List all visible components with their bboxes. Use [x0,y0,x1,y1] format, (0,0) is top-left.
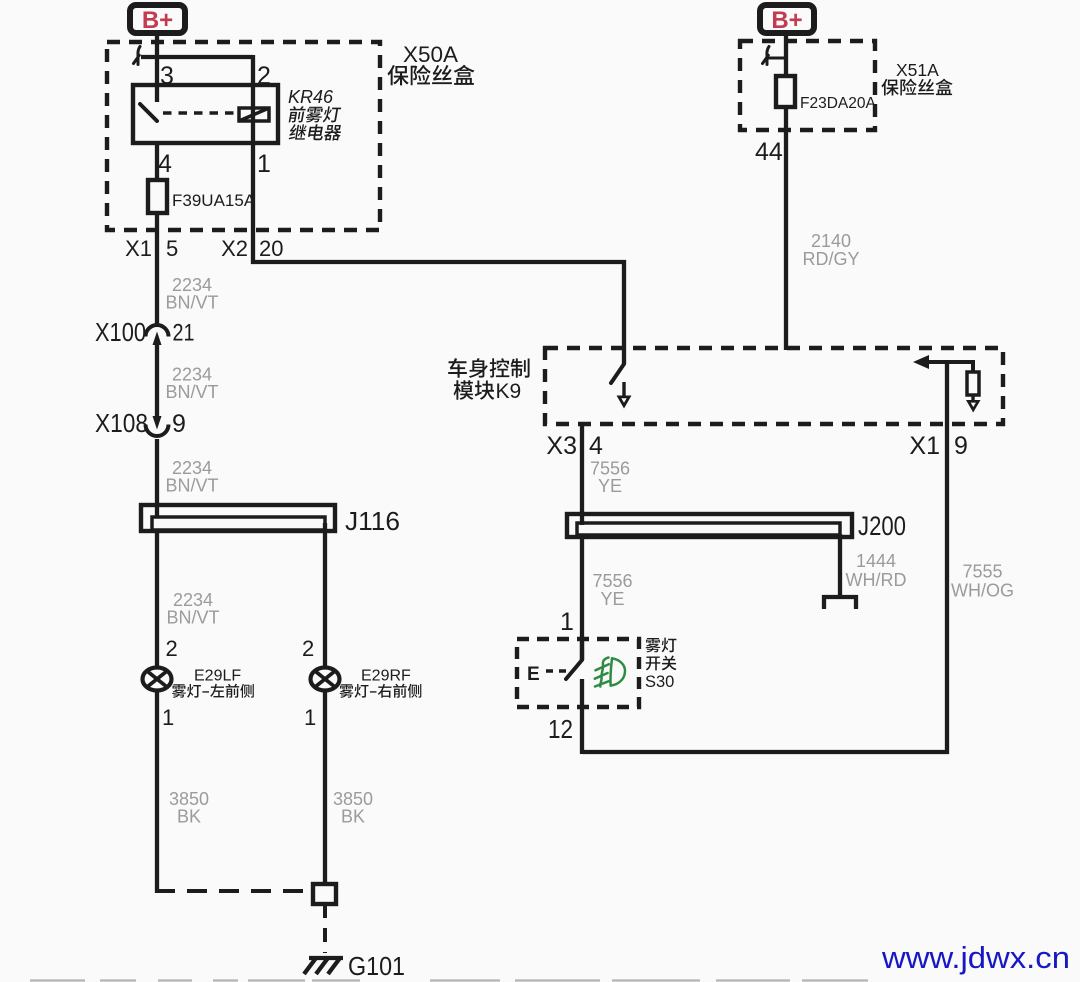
svg-text:4: 4 [158,150,172,178]
svg-text:12: 12 [548,714,573,744]
svg-text:X100: X100 [95,317,146,347]
switch S30 blade [580,642,584,660]
fog lamp icon (green) [595,658,625,687]
svg-text:1444: 1444 [856,551,896,571]
wire B+ to relay pin 3 [155,33,159,102]
svg-text:21: 21 [173,320,195,347]
splice J200 [567,514,852,537]
fuse box X50A outline [107,42,380,230]
BCM resistor arrow [971,395,974,400]
svg-text:BK: BK [177,807,201,827]
wire X100 to X108 [155,343,159,417]
svg-text:X2: X2 [221,236,248,261]
svg-text:X51A: X51A [896,60,939,80]
wire X108 to splice J116 [155,439,159,517]
wire J116 to lamp E29LF [155,531,159,667]
svg-text:www.jdwx.cn: www.jdwx.cn [881,940,1070,975]
svg-text:X1: X1 [909,432,940,460]
lamp E29RF 雾灯-右前侧 [311,668,340,691]
svg-text:20: 20 [259,236,283,261]
svg-text:2: 2 [302,636,314,661]
BCM internal switch [611,364,624,383]
svg-text:J116: J116 [345,506,400,536]
wire S30 pin 12 down [580,679,584,754]
wire X3-4 to splice J200 [580,424,584,525]
svg-text:X108: X108 [95,408,148,438]
fuse box X51A outline [740,41,875,130]
wire relay pin 4 to fuse F39 [155,143,159,182]
wire pin 2 down to X2-20 [251,55,255,264]
label 车身控制模块K9 [448,358,529,378]
svg-text:7556: 7556 [592,571,632,591]
power symbol B+ (right) [760,5,814,33]
svg-text:9: 9 [172,410,186,438]
svg-text:B+: B+ [771,7,802,34]
svg-text:S30: S30 [645,673,674,691]
svg-text:E29LF: E29LF [194,668,241,685]
svg-text:YE: YE [598,476,622,496]
svg-text:F23DA20A: F23DA20A [800,95,876,112]
splice J116 [141,505,335,531]
svg-text:J200: J200 [858,511,906,541]
label 雾灯开关 S30 [646,638,677,653]
wire fuse F23 to BCM [784,107,788,350]
fuse F23DA20A [776,76,795,107]
svg-text:X3: X3 [546,432,577,460]
svg-text:2140: 2140 [811,231,851,251]
svg-text:KR46: KR46 [288,87,334,107]
wire X1-9 to switch return rail [582,361,947,752]
wire B+ to fuse F23 [784,33,788,78]
BCM output arrow left [622,382,625,396]
svg-text:BN/VT: BN/VT [165,293,218,313]
svg-text:YE: YE [600,589,624,609]
svg-text:X50A: X50A [403,42,458,67]
relay actuation dashed link [163,111,239,115]
svg-text:WH/RD: WH/RD [846,570,907,590]
wire J116 to lamp E29RF [323,523,327,667]
switch S30 outline [517,639,639,707]
svg-text:X1: X1 [125,236,152,261]
svg-text:BN/VT: BN/VT [166,608,219,628]
wire J200 to internal ground [838,534,842,597]
dashed wire to G101 [323,904,327,953]
svg-text:1: 1 [257,150,271,178]
svg-text:E29RF: E29RF [361,668,411,685]
wire lamp E29RF to ground box [323,691,327,887]
connector clip (X51A) [763,47,787,65]
module BCM K9 outline [545,348,1003,424]
svg-text:4: 4 [589,432,603,460]
BCM pull resistor [967,372,979,395]
svg-text:BK: BK [341,807,365,827]
ground eyelet box [313,884,336,904]
svg-text:F39UA15A: F39UA15A [172,191,256,210]
relay coil [239,108,269,121]
power symbol B+ (left) [130,5,185,33]
dashed wire to ground box [155,889,313,893]
svg-text:2: 2 [166,636,178,661]
svg-text:K9: K9 [496,380,522,403]
ground return symbol [824,597,856,609]
relay KR46 box [133,85,278,143]
svg-text:RD/GY: RD/GY [802,249,859,269]
svg-text:G101: G101 [348,951,405,981]
svg-text:B+: B+ [142,7,173,34]
ground G101 [304,958,343,974]
connector clip (X50A) [134,47,141,65]
svg-text:44: 44 [755,138,783,166]
wire fuse F39 to X100 [155,213,159,325]
wire X2-20 to BCM switch [251,262,624,364]
svg-text:7555: 7555 [962,562,1002,582]
svg-text:1: 1 [304,705,316,730]
svg-text:9: 9 [954,432,968,460]
svg-text:BN/VT: BN/VT [165,476,218,496]
svg-text:5: 5 [166,236,178,261]
svg-text:BN/VT: BN/VT [165,382,218,402]
svg-text:1: 1 [560,608,574,636]
wire relay pin3 top to pin2 top [141,55,253,59]
svg-text:1: 1 [162,705,174,730]
lamp E29LF 雾灯-左前侧 [143,668,172,691]
svg-text:E: E [527,664,540,685]
relay switch blade [140,104,157,121]
fuse F39UA15A [148,180,167,213]
svg-text:WH/OG: WH/OG [951,581,1014,601]
cropped bottom band [30,979,868,981]
wire lamp E29LF to ground splice [155,691,159,894]
BCM sense line with arrow [920,360,973,364]
wire J200 to switch S30 [580,537,584,660]
